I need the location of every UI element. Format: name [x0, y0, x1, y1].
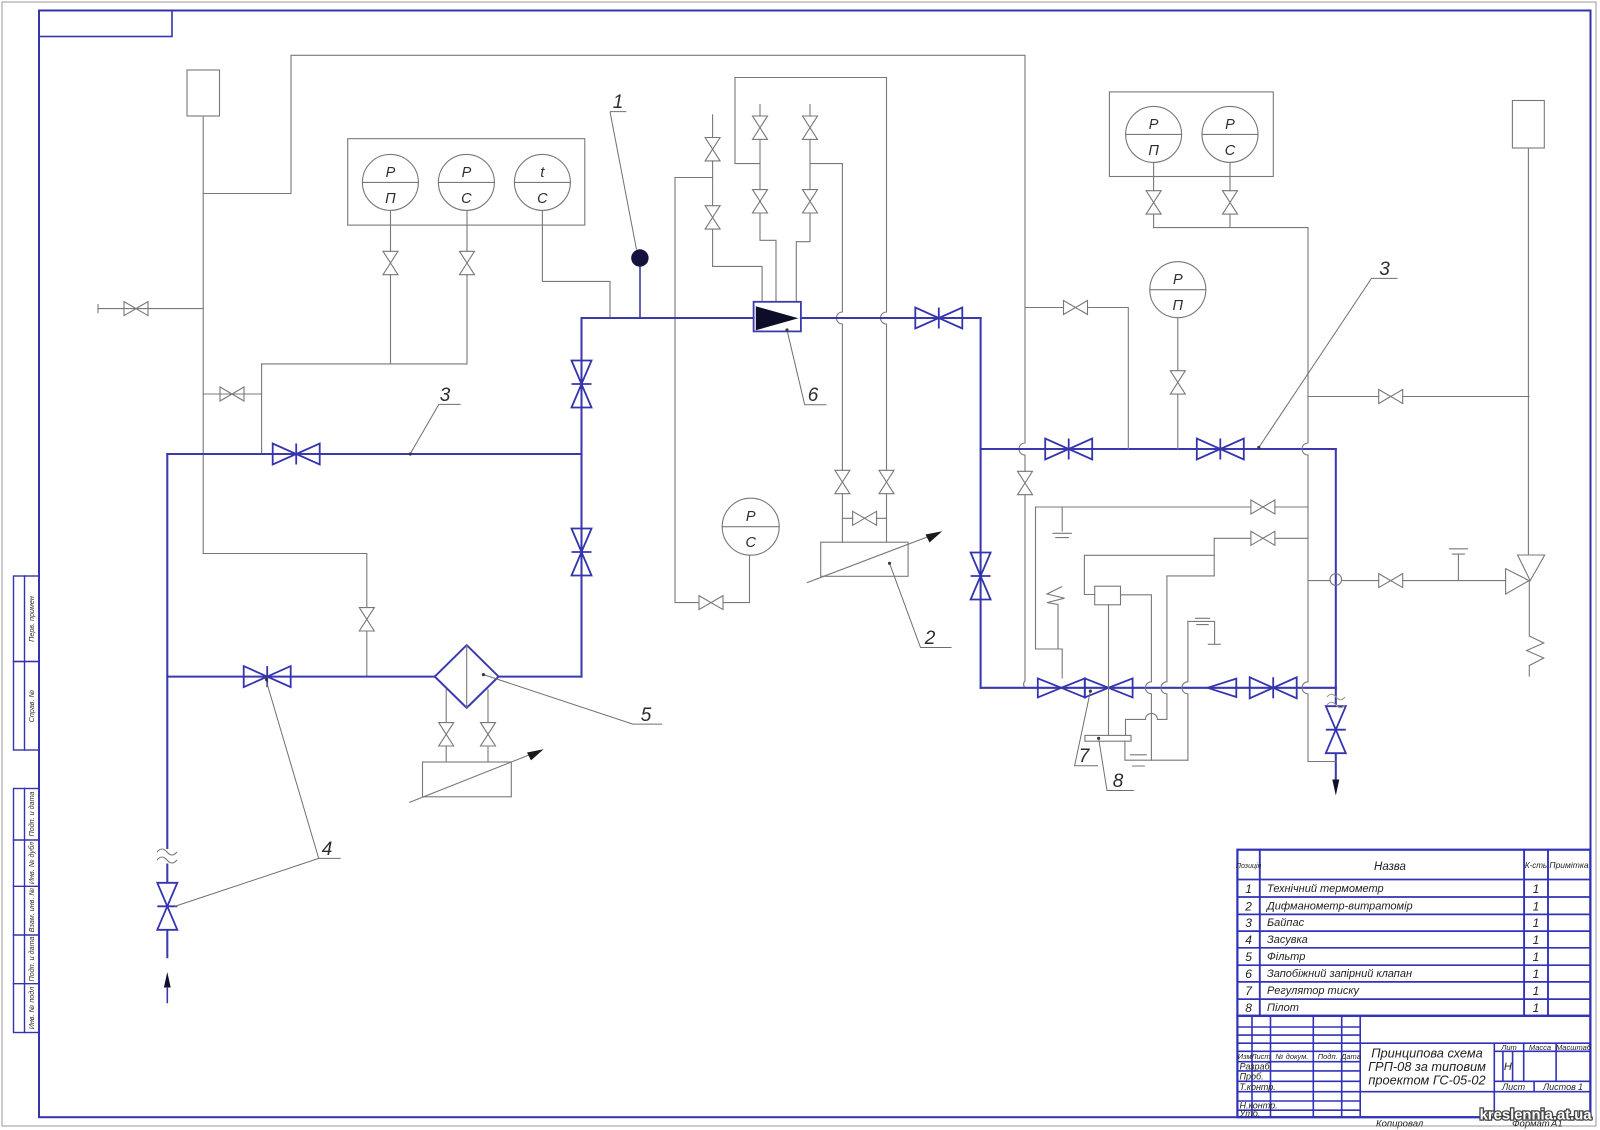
valve: inlet gate 4	[157, 883, 177, 930]
wire: VE down to safety valve box	[760, 213, 776, 302]
top-left format box	[39, 11, 172, 37]
leader dots	[265, 328, 1261, 740]
valve on relief line	[1379, 574, 1403, 588]
gauge P-C left	[438, 154, 494, 210]
wire: stem gauge P-C right	[1229, 162, 1231, 227]
vent bars on rail	[1131, 755, 1147, 766]
wire: below relief spring	[1528, 666, 1530, 677]
valve under lower P-P gauge	[1170, 371, 1185, 394]
svg-text:Технічний термометр: Технічний термометр	[1267, 883, 1384, 895]
valve on relief branch	[1379, 390, 1403, 404]
leader label 3 right	[1259, 278, 1398, 447]
pipe: main header	[582, 317, 981, 319]
title block small header texts	[1238, 1043, 1592, 1061]
svg-text:1: 1	[1533, 916, 1540, 930]
svg-text:1: 1	[1533, 1001, 1540, 1015]
wire: equalizing bridge	[842, 517, 886, 519]
svg-text:2: 2	[924, 628, 936, 649]
filter diamond	[435, 645, 499, 708]
valve under right P-P	[1146, 191, 1161, 214]
instrument rectangle top-left	[187, 70, 220, 116]
parts table position numbers	[1244, 882, 1253, 1015]
svg-text:5: 5	[1245, 950, 1252, 964]
svg-text:P: P	[1225, 117, 1235, 133]
wire: G2 stem to device 2	[886, 494, 888, 543]
svg-text:P: P	[1149, 117, 1159, 133]
left margin block Sprav No	[14, 662, 40, 751]
svg-text:8: 8	[1113, 771, 1124, 792]
svg-text:Инв. № дубл: Инв. № дубл	[27, 842, 36, 884]
svg-text:Засувка: Засувка	[1267, 934, 1308, 946]
wire: bottom vent rail	[1125, 741, 1188, 760]
check direction cone	[1208, 679, 1237, 697]
svg-text:Лист: Лист	[1250, 1052, 1270, 1061]
svg-text:Изм: Изм	[1238, 1052, 1252, 1061]
device 2 arrowhead	[926, 531, 943, 542]
svg-text:4: 4	[1245, 933, 1252, 947]
break tildes on inlet	[157, 849, 177, 863]
pilot box	[1095, 586, 1121, 605]
gauge P-P left	[362, 154, 418, 210]
break tildes on vent	[1327, 694, 1345, 708]
pipe: lower right header	[981, 687, 1336, 689]
wire: right box edge to diff-manometer right riser	[881, 78, 887, 471]
wire: filter dp left stem	[445, 690, 447, 763]
svg-text:7: 7	[1245, 984, 1253, 998]
svg-text:P: P	[386, 165, 396, 181]
wire: VC-VD stem with tap to left riser	[712, 161, 714, 206]
parts table quantities	[1533, 882, 1540, 1015]
valve: mid riser gate	[971, 553, 991, 600]
gauge P-P right top	[1126, 106, 1182, 162]
wire: spring stem from L1 riser corner	[1036, 507, 1063, 678]
wire: VC vent stem upper	[712, 115, 714, 138]
left gauges panel box	[348, 139, 585, 225]
gauge P-C middle	[722, 498, 779, 555]
svg-text:P: P	[462, 165, 472, 181]
wire: plate top right riser and hop line	[1126, 713, 1167, 735]
parts table outer	[1237, 850, 1590, 1016]
svg-text:П: П	[1173, 298, 1184, 314]
leader label 5	[484, 675, 663, 725]
valve VA	[753, 116, 768, 139]
safety shutoff valve 6 plug	[756, 306, 799, 330]
wire: VA-VE stem	[759, 139, 761, 189]
valve VE	[753, 190, 768, 213]
safety shutoff valve 6 box	[754, 302, 801, 332]
svg-text:3: 3	[1245, 916, 1252, 930]
wire: branch to top long impulse line	[203, 55, 1025, 471]
pipe: main header corner riser	[980, 318, 982, 449]
valve VC	[705, 138, 720, 161]
inlet stub below arrow	[166, 988, 168, 1003]
svg-text:Перв. примен: Перв. примен	[27, 596, 36, 642]
relief valve triangles	[1506, 555, 1545, 594]
wire: VB vent stem	[809, 105, 811, 117]
parts table header texts	[1236, 860, 1589, 870]
svg-text:6: 6	[808, 385, 819, 406]
svg-text:Позиція: Позиція	[1236, 862, 1262, 870]
valve on P-C middle line	[699, 596, 723, 610]
left margin lower blocks	[14, 789, 40, 1033]
valve on upper branch	[1064, 301, 1088, 315]
below frame texts	[1376, 1119, 1563, 1130]
svg-text:Регулятор тиску: Регулятор тиску	[1267, 985, 1361, 997]
valve: upper right header gate 1	[1045, 439, 1092, 460]
svg-text:1: 1	[1533, 984, 1540, 998]
svg-text:Байпас: Байпас	[1267, 917, 1305, 929]
svg-text:Разраб.: Разраб.	[1240, 1061, 1273, 1071]
wire: left wall stub	[98, 305, 203, 313]
gauge P-P lower right	[1150, 262, 1206, 318]
valve on equalizing bridge	[853, 511, 877, 525]
pipe: upper right header	[981, 448, 1336, 450]
valve: upper right header gate 2	[1197, 439, 1244, 460]
pipe: right vertical to lower header	[1335, 449, 1337, 688]
valve on filter branch	[359, 608, 374, 631]
svg-text:C: C	[537, 191, 548, 207]
valve on top riser	[1018, 471, 1033, 494]
wire: branch from VB stem to diff-manometer left riser	[810, 164, 842, 471]
wire: stem lower P-P gauge	[1177, 318, 1179, 449]
vent bars on L1 stub	[1053, 533, 1071, 537]
svg-text:Копировал: Копировал	[1376, 1119, 1424, 1130]
wire: regulator stem	[1108, 605, 1110, 736]
svg-text:C: C	[461, 191, 472, 207]
leader label 3 left	[410, 404, 460, 453]
svg-text:4: 4	[322, 839, 333, 860]
relief take-off circle	[1330, 574, 1342, 586]
wire: branch upper with valve to sensing header	[1025, 308, 1128, 450]
device 2 diagonal arrow	[807, 535, 933, 583]
svg-text:t: t	[540, 165, 545, 181]
parts table rows	[1237, 880, 1590, 1000]
labels group	[175, 112, 1398, 907]
svg-text:C: C	[1225, 143, 1236, 159]
regulator 7 body	[1038, 678, 1133, 697]
svg-text:Инв. № подл: Инв. № подл	[27, 987, 36, 1030]
title block outer	[1237, 1016, 1590, 1117]
device 2 diff-manometer flowmeter box	[821, 542, 908, 576]
valve under gauge P-P left	[383, 251, 398, 274]
wire: left riser from rectangle down	[202, 116, 204, 554]
wire: P-C gauge middle line with valve	[675, 555, 750, 602]
valve: vent gate	[1326, 706, 1346, 753]
wire: L2 to L3 connector	[1213, 538, 1215, 576]
wire: gauge manifold horizontal	[262, 363, 467, 365]
inlet flow arrow	[164, 972, 171, 988]
wire: rail right riser with hop	[1182, 621, 1188, 760]
valve: riser lower gate	[572, 529, 592, 576]
svg-text:Подп. и дата: Подп. и дата	[27, 937, 36, 982]
wire: box top horizontal	[735, 77, 887, 79]
pipe: left vertical between headers	[980, 449, 982, 688]
wire: long right drop line	[1527, 148, 1529, 555]
vent bars near header	[1196, 618, 1210, 624]
valve VB	[803, 116, 818, 139]
svg-text:Масштаб: Масштаб	[1556, 1043, 1592, 1052]
svg-text:1: 1	[1533, 882, 1540, 896]
pipe: lower left line	[167, 676, 581, 678]
svg-text:2: 2	[1244, 899, 1252, 913]
svg-text:1: 1	[613, 92, 624, 113]
pipe: riser between bypass and main	[580, 318, 582, 677]
wire: top riser below valve down to lower blue line	[1024, 495, 1025, 688]
valve: riser upper gate	[572, 361, 592, 408]
svg-text:1: 1	[1533, 933, 1540, 947]
thermometer 1 bulb	[631, 249, 648, 266]
svg-text:1: 1	[1533, 950, 1540, 964]
vent stub on L1	[1061, 507, 1063, 531]
wire: VB-VF stem with branch right	[809, 139, 811, 189]
leader label 1	[610, 112, 637, 250]
leader label 6	[787, 330, 827, 405]
title main text	[1368, 1046, 1486, 1088]
wire: gauge manifold to right riser	[1154, 227, 1308, 229]
title block left columns	[1252, 1016, 1360, 1117]
valve: bypass gate	[273, 444, 320, 465]
wire: G1 stem to device 2	[841, 494, 843, 543]
svg-text:1: 1	[1578, 1082, 1583, 1092]
valve VF	[803, 190, 818, 213]
svg-text:Дифманометр-витратомір: Дифманометр-витратомір	[1265, 900, 1413, 912]
filter dp diagonal arrow	[410, 753, 535, 803]
valve: main header gate	[915, 308, 962, 329]
valve filter dp left	[439, 723, 454, 746]
svg-text:5: 5	[641, 705, 652, 726]
title block signature labels	[1239, 1061, 1278, 1118]
svg-text:kreslennia.at.ua: kreslennia.at.ua	[1480, 1108, 1593, 1124]
valve under gauge P-C left	[460, 251, 475, 274]
svg-text:Взам. инв. №: Взам. инв. №	[27, 888, 36, 933]
svg-text:1: 1	[1533, 899, 1540, 913]
relief spring zigzag	[1527, 636, 1544, 666]
svg-text:Дата: Дата	[1340, 1052, 1361, 1061]
valve G2	[879, 470, 894, 493]
valve filter dp right	[481, 723, 496, 746]
wire: relief line	[1308, 580, 1506, 582]
vent bars on relief stub	[1449, 549, 1467, 554]
wire: filter dp right stem	[487, 690, 489, 763]
valve on L2	[1251, 531, 1275, 545]
svg-text:C: C	[745, 535, 756, 551]
svg-text:Т.контр.: Т.контр.	[1240, 1082, 1276, 1092]
valve G1	[835, 470, 850, 493]
wire: pilot line L2	[1214, 537, 1308, 539]
wire: bypass tap riser	[261, 364, 263, 453]
svg-text:Подп. и дата: Подп. и дата	[27, 792, 36, 837]
left margin vertical texts	[27, 596, 36, 1029]
blue valves	[157, 308, 1346, 930]
wire: stem gauge P-P left	[390, 210, 392, 364]
top right instrument rectangle	[1512, 101, 1544, 149]
left margin block Perv primen	[14, 576, 40, 662]
svg-text:3: 3	[440, 385, 451, 406]
filter center line	[466, 645, 468, 708]
title block left rows	[1237, 1027, 1360, 1110]
thermometer well stem	[639, 266, 641, 318]
wire: pilot box right to down riser with hop	[1121, 595, 1152, 760]
svg-text:Масса: Масса	[1529, 1043, 1551, 1052]
svg-text:Запобіжний запірний клапан: Запобіжний запірний клапан	[1267, 968, 1412, 980]
title block right zone lines	[1360, 1043, 1590, 1117]
svg-text:проектом ГС-05-02: проектом ГС-05-02	[1368, 1073, 1485, 1088]
wire: relief valve to spring	[1528, 581, 1530, 636]
wire: stem gauge P-C left	[466, 210, 468, 364]
svg-text:Листов: Листов	[1542, 1082, 1576, 1092]
valve on bypass impulse branch	[220, 387, 244, 401]
spring zigzag	[1047, 587, 1065, 649]
valve VD	[705, 206, 720, 229]
filter dp device box	[423, 762, 512, 797]
wire: thermometer t-C impulse	[542, 210, 610, 317]
pipe: bypass horizontal left	[167, 453, 581, 455]
parts table columns	[1260, 850, 1548, 1016]
svg-text:1: 1	[1533, 967, 1540, 981]
valve on left wall stub	[124, 302, 148, 316]
svg-text:Назва: Назва	[1374, 861, 1406, 873]
svg-text:6: 6	[1245, 967, 1252, 981]
svg-text:1: 1	[1245, 882, 1252, 896]
wire: VF down to safety valve box	[796, 213, 810, 302]
wire: pilot line L1	[1036, 506, 1309, 508]
svg-text:7: 7	[1079, 746, 1091, 767]
vent stub on relief line	[1457, 555, 1459, 581]
wire: VD down to safety valve box	[713, 229, 763, 302]
svg-text:П: П	[385, 191, 396, 207]
pipe: inlet vertical	[166, 454, 168, 957]
label digits	[322, 92, 1391, 860]
valve on L1	[1251, 500, 1275, 514]
svg-text:P: P	[746, 509, 756, 525]
leader label 7	[1075, 691, 1098, 766]
svg-text:№ докум.: № докум.	[1275, 1052, 1308, 1061]
wire: VA vent stem	[759, 105, 761, 117]
valve: lower left gate	[244, 666, 291, 687]
gauge P-C right top	[1202, 106, 1258, 162]
svg-text:Утб.: Утб.	[1239, 1109, 1261, 1119]
svg-text:Подп.: Подп.	[1318, 1052, 1338, 1061]
svg-text:P: P	[1173, 272, 1183, 288]
svg-text:П: П	[1148, 143, 1159, 159]
svg-text:Фільтр: Фільтр	[1267, 951, 1305, 963]
wire: bypass impulse branch with valve	[203, 393, 261, 395]
wire: stem gauge P-P right	[1153, 162, 1155, 227]
wire: tap to P-C gauge riser	[675, 178, 713, 603]
vent arrow down	[1332, 780, 1339, 796]
leader label 2	[890, 563, 952, 647]
wire: right riser with hops over blue lines	[1302, 228, 1336, 762]
svg-text:Справ. №: Справ. №	[27, 689, 36, 722]
vent end bar	[1208, 643, 1220, 645]
gauge t-C left	[514, 154, 570, 210]
right gauges panel box	[1109, 92, 1273, 177]
wire: pilot line L3 to pilot box	[1084, 555, 1214, 594]
leader label 4	[175, 680, 341, 906]
wire: loop from box top to VA stem	[735, 78, 760, 164]
wire: relief branch horizontal	[1308, 396, 1529, 398]
svg-text:8: 8	[1245, 1001, 1252, 1015]
svg-text:3: 3	[1379, 259, 1390, 280]
parts table names	[1265, 883, 1413, 1014]
svg-text:Пілот: Пілот	[1267, 1002, 1299, 1014]
wire: vent header	[1188, 621, 1215, 644]
sheet row texts	[1501, 1082, 1583, 1092]
valve: lower right gate	[1250, 677, 1297, 698]
svg-text:Лит: Лит	[1500, 1043, 1517, 1052]
filter dp arrowhead	[527, 749, 544, 760]
svg-text:Примітка: Примітка	[1549, 860, 1588, 870]
svg-text:Лист: Лист	[1501, 1082, 1526, 1092]
valve under right P-C	[1223, 191, 1238, 214]
svg-text:К-сть: К-сть	[1525, 861, 1547, 870]
wire: jog to riser branch	[1161, 576, 1214, 720]
svg-text:Проб.: Проб.	[1240, 1072, 1264, 1082]
pilot plate 8	[1085, 735, 1131, 741]
leader label 8	[1099, 738, 1134, 790]
gauge letters	[385, 117, 1236, 551]
pipe: vent drop after break	[1335, 688, 1337, 780]
wire: filter branch from riser	[203, 554, 367, 676]
svg-text:Н: Н	[1504, 1061, 1512, 1073]
